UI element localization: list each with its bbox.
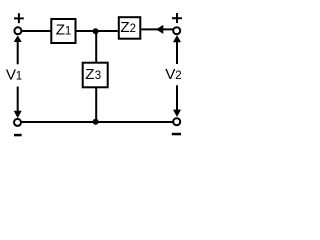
svg-text:3: 3: [95, 70, 101, 82]
impedance Z1: [51, 19, 75, 43]
label V2: [165, 66, 181, 83]
voltage arrow V2 upper: [173, 35, 181, 64]
wire: [96, 30, 118, 32]
wire: [22, 30, 51, 32]
wire Z3 bottom: [95, 87, 97, 121]
label Z2: [120, 19, 136, 36]
wire: [77, 30, 96, 32]
voltage arrow V2 lower: [173, 85, 181, 117]
svg-text:2: 2: [130, 23, 136, 35]
minus sign port 2: [172, 133, 181, 136]
svg-text:Z: Z: [56, 22, 65, 39]
junction node A: [93, 28, 99, 34]
plus sign port 1: [14, 13, 24, 23]
terminal port1 top: [14, 27, 21, 34]
voltage arrow V1 lower: [14, 87, 22, 119]
impedance Z3: [83, 63, 108, 88]
wire Z3 top: [95, 31, 97, 63]
terminal port1 bottom: [14, 119, 21, 126]
current arrow I2: [156, 25, 163, 34]
label Z3: [85, 66, 101, 83]
voltage arrow V1 upper: [14, 35, 22, 64]
terminal port2 top: [173, 27, 180, 34]
svg-text:2: 2: [175, 70, 181, 82]
plus sign port 2: [172, 13, 182, 23]
junction node B: [93, 119, 99, 125]
label Z1: [56, 22, 72, 39]
svg-text:Z: Z: [120, 19, 129, 36]
label V1: [6, 66, 22, 83]
svg-text:Z: Z: [85, 66, 94, 83]
terminal port2 bottom: [173, 118, 180, 125]
impedance Z2: [119, 17, 141, 39]
minus sign port 1: [14, 134, 22, 137]
bottom wire: [21, 121, 173, 123]
svg-text:1: 1: [65, 26, 71, 38]
svg-text:1: 1: [16, 70, 22, 82]
wire: [141, 28, 173, 30]
